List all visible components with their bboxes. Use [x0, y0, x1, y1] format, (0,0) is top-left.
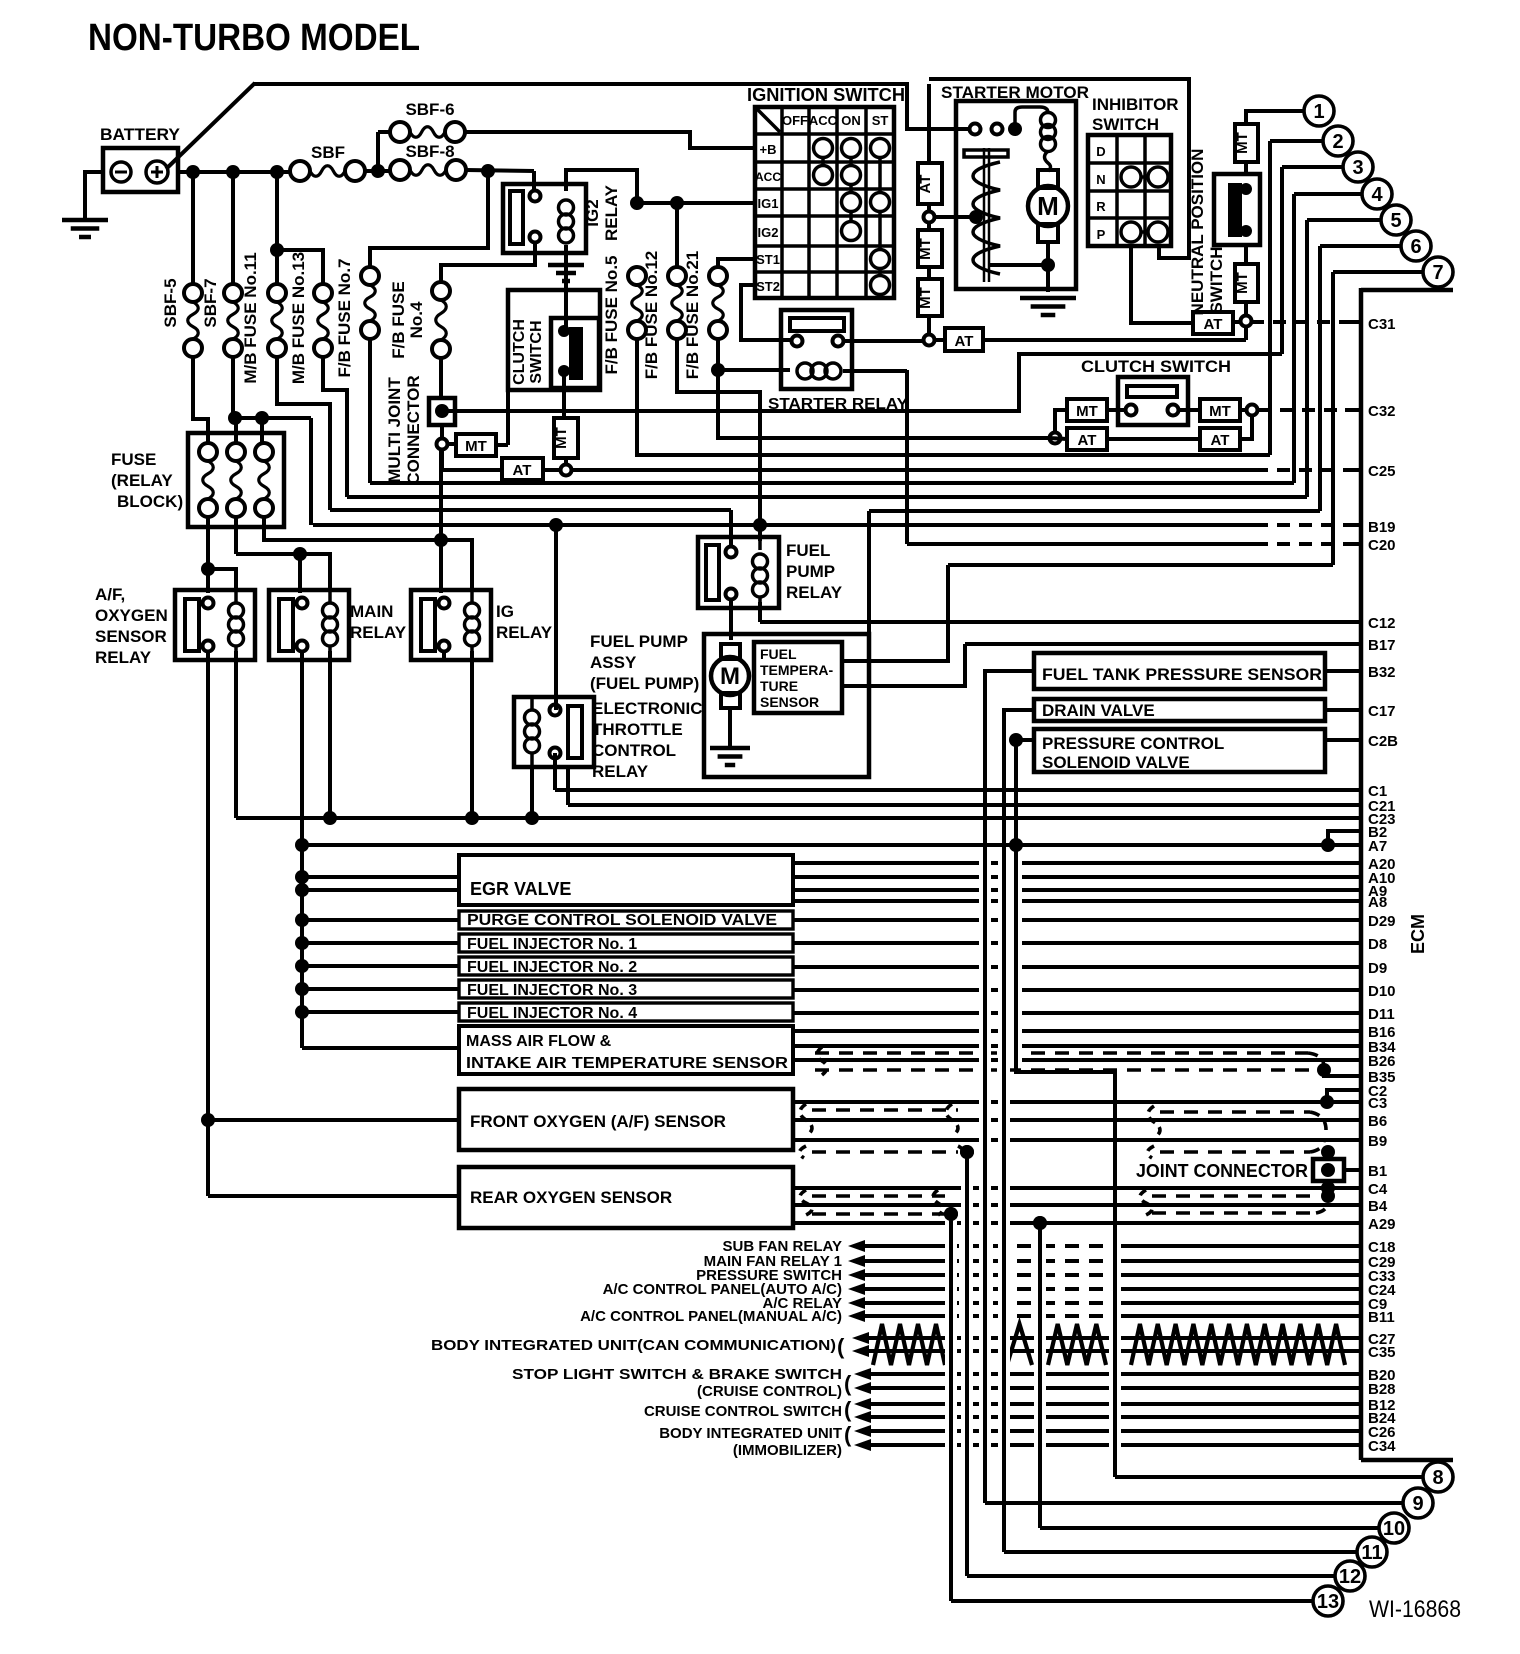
svg-text:MT: MT [553, 427, 570, 449]
node front oxygen feed [201, 1113, 215, 1127]
node starter plunger [969, 210, 983, 224]
wire fuse3 to IG relay feed [264, 517, 441, 540]
wire circle4 riser [1294, 192, 1362, 196]
svg-text:MT: MT [917, 287, 934, 309]
svg-text:C20: C20 [1368, 537, 1396, 554]
svg-text:C25: C25 [1368, 463, 1396, 480]
wire A/C CONTROL PANEL(AUTO A/C) [862, 1287, 945, 1291]
wire main feed [236, 552, 300, 556]
svg-text:JOINT CONNECTOR: JOINT CONNECTOR [1136, 1161, 1308, 1181]
relay electronic throttle control [514, 697, 594, 767]
node chain circle 1 [924, 212, 935, 223]
wire FP relay pin to fuel pump [729, 599, 733, 640]
svg-text:FUEL PUMP: FUEL PUMP [590, 632, 688, 651]
wire MT to junction [1244, 302, 1248, 315]
wire B24 line [868, 1415, 1361, 1419]
wire C23 line [236, 816, 1361, 820]
wire A/F relay pin to oxygen sensors [206, 650, 210, 1196]
wire A7 line [302, 843, 1361, 847]
svg-text:MULTI JOINT: MULTI JOINT [385, 377, 404, 483]
svg-text:RELAY: RELAY [602, 184, 621, 241]
node front shield to circle12 [960, 1145, 974, 1159]
svg-text:FUEL INJECTOR No. 1: FUEL INJECTOR No. 1 [467, 936, 637, 953]
wire battery diagonal to top bus [166, 83, 255, 169]
svg-text:A7: A7 [1368, 838, 1387, 855]
wire SBF-7 to fuse block [231, 357, 235, 418]
connector MT starter 1 [918, 230, 942, 267]
wire A10 stub [793, 875, 1361, 879]
svg-text:MASS AIR FLOW &: MASS AIR FLOW & [466, 1033, 612, 1050]
wire C21 line [568, 803, 1361, 807]
wire circle6 line [869, 509, 1320, 513]
wire B28 line [868, 1386, 1361, 1390]
svg-text:SWITCH: SWITCH [528, 320, 545, 383]
svg-text:6: 6 [1410, 236, 1421, 258]
fuse relay block 2 [227, 443, 245, 461]
wire plunger tap [935, 215, 976, 219]
wire B35 jog [1324, 1070, 1361, 1076]
wire B12 line [868, 1402, 1361, 1406]
wire PRESSURE SWITCH [862, 1273, 945, 1277]
node front shield [960, 1145, 974, 1159]
wire ETC pin feed [554, 525, 558, 710]
svg-text:(CRUISE CONTROL): (CRUISE CONTROL) [697, 1383, 842, 1400]
ECM connector bus [1359, 288, 1364, 1460]
connector AT clutch right right [1200, 428, 1240, 450]
svg-text:C2B: C2B [1368, 733, 1398, 750]
wire starter coil right to C20 [843, 369, 907, 373]
svg-text:SWITCH: SWITCH [1207, 246, 1226, 313]
wire circle12 line [967, 1574, 1335, 1578]
connector multi joint [429, 398, 455, 425]
wire AT to MT junction [543, 468, 560, 472]
wire front oxygen feed [208, 1118, 459, 1122]
wire front shield riser [965, 1152, 969, 1576]
wire fuel pump to ground [728, 708, 732, 746]
node FP coil feed [753, 518, 767, 532]
node circle 7 [1423, 257, 1453, 287]
svg-text:11: 11 [1361, 1542, 1382, 1564]
svg-text:+B: +B [760, 142, 777, 157]
wires clutch right connectors [1179, 408, 1200, 412]
svg-text:FUSE: FUSE [111, 450, 156, 469]
svg-text:SENSOR: SENSOR [760, 694, 819, 710]
wire drain valve riser [1002, 710, 1006, 1552]
svg-text:B11: B11 [1368, 1309, 1395, 1326]
ground IG2 relay [548, 263, 584, 268]
svg-text:D: D [1096, 144, 1105, 159]
wire circle13 line [951, 1599, 1313, 1603]
node circle 12 [1335, 1561, 1365, 1591]
wire A9 stub [793, 888, 1361, 892]
svg-text:BODY INTEGRATED UNIT(CAN COMMU: BODY INTEGRATED UNIT(CAN COMMUNICATION) [431, 1337, 836, 1354]
wire FP relay pin feed [729, 510, 733, 547]
wire inj2 feed [302, 964, 459, 968]
wire C17 stub [1325, 708, 1361, 712]
connector AT NPS [1193, 312, 1233, 334]
wire FP coil feed [758, 525, 762, 541]
wire [927, 223, 931, 230]
wire circle6 riser [1320, 244, 1401, 248]
svg-text:REAR OXYGEN SENSOR: REAR OXYGEN SENSOR [470, 1188, 672, 1207]
wire fuse21 down [716, 339, 720, 370]
svg-text:AT: AT [917, 175, 934, 194]
wire B19 line [313, 523, 1255, 527]
wire clutch outer box to MT multi joint [506, 390, 510, 445]
node circle 2 [1323, 126, 1353, 156]
wire clutch switch to MT box [562, 376, 566, 418]
wire inj4 feed [302, 1010, 459, 1014]
ground starter motor [1020, 296, 1076, 301]
wire M/B fuse 11 to FP relay line [277, 357, 330, 510]
svg-text:FUEL TANK PRESSURE SENSOR: FUEL TANK PRESSURE SENSOR [1042, 665, 1322, 684]
node pressure control A7 crossing [1009, 838, 1023, 852]
svg-text:C32: C32 [1368, 403, 1396, 420]
node starter relay coil feed [711, 363, 725, 377]
ignition switch contacts [821, 148, 825, 175]
wire IG2 relay to F/B fuse No.4 [441, 243, 535, 282]
wire C2B stub [1325, 738, 1361, 742]
svg-text:F/B FUSE No.7: F/B FUSE No.7 [335, 258, 354, 377]
relay fuel pump [698, 537, 779, 608]
node rear shield to circle13 [944, 1207, 958, 1221]
svg-text:BLOCK): BLOCK) [117, 492, 183, 511]
node circle 3 [1343, 152, 1373, 182]
svg-text:TURE: TURE [760, 678, 798, 694]
wire ETC bottom pin to C1 [553, 753, 557, 790]
svg-text:RELAY: RELAY [592, 762, 649, 781]
wire SBF-6 branch up [376, 132, 380, 171]
wire M/B fuse 13 to circle5 line [323, 357, 347, 497]
node F/B fuse12 tap [670, 196, 684, 210]
wire IG feed to coil [441, 540, 472, 590]
starter solenoid coil [1015, 107, 1048, 129]
wire fuel tank pressure riser [983, 671, 987, 1503]
wire chain to AT [927, 84, 931, 163]
svg-text:B9: B9 [1368, 1133, 1387, 1150]
svg-text:AT: AT [955, 333, 974, 350]
svg-text:ST1: ST1 [756, 252, 780, 267]
wire D29 line [793, 918, 1361, 922]
shield rear oxygen dashed left [812, 1194, 945, 1198]
node C23 main coil [323, 811, 337, 825]
svg-text:D11: D11 [1368, 1006, 1395, 1023]
svg-text:SWITCH: SWITCH [1092, 115, 1159, 134]
svg-text:RELAY: RELAY [350, 623, 407, 642]
wire crossing breaks [979, 852, 991, 1232]
sensor fuel temperature [754, 642, 842, 713]
wire C1 line [555, 788, 1361, 792]
wire B9 line [793, 1138, 1361, 1142]
wire B1 stub [1344, 1168, 1361, 1172]
svg-text:SBF-8: SBF-8 [405, 142, 454, 161]
svg-text:B19: B19 [1368, 519, 1396, 536]
wire multi joint down [440, 425, 444, 438]
svg-text:B4: B4 [1368, 1198, 1388, 1215]
svg-text:C31: C31 [1368, 316, 1396, 333]
wire A/F feed to coil [208, 569, 236, 590]
svg-text:ECM: ECM [1408, 914, 1428, 954]
svg-text:B1: B1 [1368, 1163, 1387, 1180]
wire C25 line [572, 468, 1255, 472]
svg-text:SENSOR: SENSOR [95, 627, 167, 646]
fuse block (relay block) [188, 433, 284, 527]
twisted pair symbol 1 [873, 1324, 945, 1365]
node SBF-5 tap [186, 165, 200, 179]
svg-text:STOP LIGHT SWITCH & BRAKE SWIT: STOP LIGHT SWITCH & BRAKE SWITCH [512, 1366, 842, 1383]
node front shield to joint connector [1321, 1145, 1335, 1159]
node M/B fuse 11 tap [270, 165, 284, 179]
node circle 13 [1313, 1586, 1343, 1616]
wire A29 line [793, 1221, 1361, 1225]
inhibitor contacts [1121, 167, 1141, 187]
fuse SBF-6 [390, 122, 410, 142]
svg-text:INHIBITOR: INHIBITOR [1092, 95, 1179, 114]
node C3 C2 jog [1320, 1095, 1334, 1109]
node clutch right junction [1247, 405, 1258, 416]
valve drain [1034, 699, 1325, 721]
wire SBF-8 node down to F/B fuse No.7 [370, 171, 488, 267]
wire main battery line y=172 [178, 170, 290, 174]
svg-text:M: M [720, 663, 740, 690]
wire feed fuse block 3 [260, 418, 264, 442]
svg-text:FRONT OXYGEN (A/F) SENSOR: FRONT OXYGEN (A/F) SENSOR [470, 1112, 726, 1131]
wire A/C CONTROL PANEL(MANUAL A/C) [862, 1314, 945, 1318]
twisted pair symbol 2 [1007, 1324, 1032, 1365]
svg-text:D10: D10 [1368, 983, 1396, 1000]
wire A29 to circle10 [1038, 1223, 1042, 1528]
wire NPS junction down [1244, 327, 1248, 340]
svg-text:M/B FUSE No.11: M/B FUSE No.11 [241, 252, 260, 383]
starter drive pinion [983, 148, 986, 282]
wire starter relay pin to MT chain [844, 339, 923, 343]
ground fuel pump [710, 746, 750, 751]
svg-text:MT: MT [917, 238, 934, 260]
clutch switch left box [508, 290, 600, 390]
wire branch to M/B fuse 13 [277, 250, 323, 284]
svg-text:MT: MT [1234, 132, 1251, 154]
svg-text:P: P [1097, 227, 1106, 242]
shield front oxygen dashed left [812, 1108, 958, 1112]
fuse relay block 3 [255, 443, 273, 461]
wire circle7 riser [1333, 270, 1423, 274]
wire pressure control to circle8 line [1016, 738, 1034, 742]
node A7 B2 [1321, 838, 1335, 852]
node MAF shield [1317, 1063, 1331, 1077]
wire IG relay pin down [442, 650, 446, 660]
wire main relay hub down [300, 845, 304, 1048]
svg-text:A/F,: A/F, [95, 585, 125, 604]
svg-text:CONNECTOR: CONNECTOR [404, 375, 423, 484]
wire C20 line [905, 370, 909, 544]
svg-text:SBF: SBF [311, 143, 345, 162]
svg-text:INTAKE AIR TEMPERATURE SENSOR: INTAKE AIR TEMPERATURE SENSOR [466, 1055, 788, 1072]
node A29 circle10 [1033, 1216, 1047, 1230]
wire C4 line [793, 1186, 1361, 1190]
wire rear shield to circle13 [949, 1214, 953, 1601]
twisted pair symbol 4 [1131, 1324, 1345, 1365]
wire EGR feed 1 [302, 875, 459, 879]
wire front shield to circle12 [965, 1152, 969, 1576]
wire SBF-6 to ignition switch +B [465, 132, 755, 148]
wire B32 stub [1325, 669, 1361, 673]
svg-text:(: ( [844, 1397, 852, 1422]
svg-text:A29: A29 [1368, 1216, 1396, 1233]
fuel pump assy box [704, 634, 869, 777]
wire B6 line [793, 1118, 1361, 1122]
wire fuel temp sensor to circle7 line [842, 565, 948, 661]
wire ETC coil to C23 [530, 767, 534, 818]
wire IG coil to C23 [470, 651, 474, 818]
wire y=418 bus [235, 416, 311, 420]
shield front oxygen dashed right [1160, 1110, 1310, 1114]
svg-text:PURGE CONTROL SOLENOID VALVE: PURGE CONTROL SOLENOID VALVE [467, 912, 777, 929]
wire SBF-8 output [466, 170, 534, 171]
svg-text:WI-16868: WI-16868 [1369, 1596, 1461, 1623]
svg-text:5: 5 [1390, 210, 1401, 232]
relay IG [411, 590, 491, 660]
sensor rear oxygen [459, 1167, 793, 1228]
motor fuel pump [721, 644, 740, 659]
wire fuse2 to main relay [234, 517, 238, 554]
svg-text:AT: AT [513, 462, 532, 479]
svg-text:(FUEL PUMP): (FUEL PUMP) [590, 674, 699, 693]
wire y=418 to ETC relay feed [309, 418, 313, 525]
svg-text:AT: AT [1211, 432, 1230, 449]
node circle 6 [1401, 231, 1431, 261]
wire C3 line [793, 1100, 1361, 1104]
wire circle5 riser [1307, 218, 1381, 222]
svg-text:B28: B28 [1368, 1381, 1396, 1398]
wire MAIN FAN RELAY 1 [862, 1259, 945, 1263]
node chain circle 2 [924, 335, 935, 346]
svg-text:D29: D29 [1368, 913, 1396, 930]
wire circle9 line [985, 1501, 1403, 1505]
wire C31 dashed [1251, 320, 1355, 324]
svg-text:IG: IG [496, 602, 514, 621]
svg-text:IG2: IG2 [758, 225, 779, 240]
wire ST1 row [718, 259, 755, 267]
wire A top bus y=84 to starter motor [253, 84, 971, 129]
node A29 junction [1033, 1216, 1047, 1230]
node SBF-8 output [481, 164, 495, 178]
wire B17 line [965, 642, 1361, 646]
wire B16 line [793, 1029, 1361, 1033]
svg-text:13: 13 [1317, 1591, 1339, 1613]
wire circle11 line [1004, 1550, 1357, 1554]
wires clutch left connectors [1049, 438, 1067, 439]
wire circle3 riser [1282, 165, 1343, 169]
wire EGR feed 2 [302, 888, 459, 892]
wire pressure control down [1016, 740, 1115, 1477]
svg-text:(: ( [844, 1371, 852, 1396]
valve pressure control solenoid [1034, 729, 1325, 772]
connector MT NPS top [1235, 124, 1258, 162]
wire circle7 feed line [948, 563, 1333, 567]
node circle 10 [1379, 1513, 1409, 1543]
svg-text:EGR VALVE: EGR VALVE [470, 879, 571, 899]
svg-text:BATTERY: BATTERY [100, 125, 181, 144]
connector MT starter 2 [918, 279, 942, 316]
injector fuel No.1 [459, 934, 793, 952]
wire fuel tank pressure to circle9 [985, 671, 1034, 1503]
wire AT to NPS junction [983, 338, 1246, 342]
starter solenoid contacts [970, 124, 981, 135]
svg-text:MT: MT [1076, 403, 1098, 420]
svg-text:4: 4 [1371, 184, 1383, 206]
svg-text:B26: B26 [1368, 1053, 1396, 1070]
svg-text:FUEL INJECTOR No. 4: FUEL INJECTOR No. 4 [467, 1005, 637, 1022]
svg-text:NEUTRAL POSITION: NEUTRAL POSITION [1188, 149, 1207, 316]
wire F/B fuse 7 to circle4 line [368, 339, 372, 483]
wire to starter relay coil [718, 368, 790, 372]
wire circle2 riser [1270, 139, 1323, 143]
wire C32 dashed [1258, 408, 1355, 412]
svg-text:1: 1 [1313, 101, 1324, 123]
wire AT to circle [927, 204, 931, 211]
svg-text:CLUTCH: CLUTCH [511, 319, 528, 385]
svg-text:DRAIN VALVE: DRAIN VALVE [1042, 701, 1155, 720]
wire fuse1 to A/F relay [206, 517, 210, 593]
fuse F/B FUSE No.7 [361, 267, 379, 285]
svg-text:C17: C17 [1368, 703, 1396, 720]
svg-text:CRUISE CONTROL SWITCH: CRUISE CONTROL SWITCH [644, 1403, 842, 1420]
svg-text:B17: B17 [1368, 637, 1396, 654]
wire A20 stub [793, 861, 1361, 865]
svg-text:C34: C34 [1368, 1438, 1396, 1455]
wire C2 jog [1327, 1090, 1361, 1102]
node circle 1 [1304, 96, 1334, 126]
wire circle to MT [448, 442, 456, 446]
svg-text:MAIN: MAIN [350, 602, 393, 621]
wire main relay pin down [300, 650, 304, 846]
wire ST2 to starter relay [741, 285, 791, 340]
fuse SBF-8 [390, 160, 410, 180]
wire SBF-5 to fuse block [193, 357, 208, 442]
node SBF-7 tap [226, 165, 240, 179]
fuse F/B FUSE No.12 [668, 267, 686, 285]
wire inj1 feed [302, 941, 459, 945]
svg-text:(RELAY: (RELAY [111, 471, 173, 490]
svg-text:SBF-6: SBF-6 [405, 100, 454, 119]
node main relay feed [293, 547, 307, 561]
fuse F/B FUSE No.4 [432, 282, 450, 300]
wire shield to joint connector [1326, 1152, 1330, 1159]
svg-text:FUEL INJECTOR No. 3: FUEL INJECTOR No. 3 [467, 982, 637, 999]
node F/B fuse5 tap [630, 196, 644, 210]
wire multi joint long line to circle3 [442, 354, 1282, 411]
svg-text:IGNITION SWITCH: IGNITION SWITCH [747, 85, 905, 105]
svg-text:(: ( [837, 1334, 845, 1359]
wire fuel temp sensor to B17 [842, 644, 965, 686]
node fuse block feed 1 [228, 411, 242, 425]
svg-text:ASSY: ASSY [590, 653, 637, 672]
wire inj3 feed [302, 987, 459, 991]
connector AT to neutral position [945, 328, 983, 351]
svg-text:(: ( [844, 1422, 852, 1447]
node rear shield [944, 1207, 958, 1221]
wire starter motor to ground [1046, 242, 1050, 292]
svg-text:MT: MT [1234, 272, 1251, 294]
svg-text:F/B FUSE No.12: F/B FUSE No.12 [642, 251, 661, 379]
wire A/C RELAY [862, 1301, 945, 1305]
fuse F/B FUSE No.5 [628, 267, 646, 285]
node circle 9 [1403, 1488, 1433, 1518]
wire rear shield riser [949, 1214, 953, 1601]
node circle 8 [1423, 1462, 1453, 1492]
svg-text:FUEL: FUEL [760, 646, 797, 662]
fuse M/B FUSE No.11 [268, 284, 286, 302]
